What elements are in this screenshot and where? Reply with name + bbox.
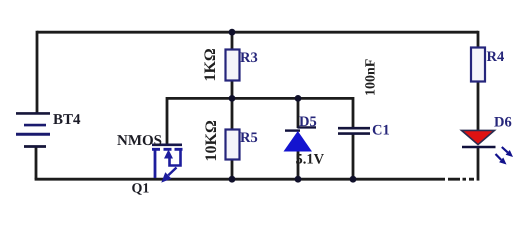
node R3/R5 middle <box>229 95 236 102</box>
wire R3 bottom lead <box>231 80 234 98</box>
cathode bar right segment <box>298 126 317 128</box>
wire NMOS gate lead <box>166 97 169 144</box>
wire bottom rail <box>35 178 445 181</box>
drain vertical <box>154 150 157 178</box>
svg-text:100nF: 100nF <box>364 59 379 96</box>
source vertical and bulk U <box>170 150 181 166</box>
wire middle rail <box>167 97 353 100</box>
source diagonal arrow <box>168 168 176 176</box>
svg-text:NMOS: NMOS <box>117 133 162 149</box>
resistor R3 <box>202 48 258 81</box>
node R3 top <box>229 29 236 36</box>
wire R5 top lead <box>231 98 234 130</box>
wire bottom rail dashed (faded) segment <box>448 178 474 181</box>
svg-text:R3: R3 <box>240 50 258 66</box>
svg-text:10KΩ: 10KΩ <box>203 120 220 161</box>
resistor R4 <box>471 48 504 82</box>
svg-text:R4: R4 <box>487 49 505 65</box>
transistor Q1 NMOS <box>117 133 183 197</box>
wire right vertical top (rail to R4) <box>477 31 480 48</box>
svg-text:BT4: BT4 <box>53 112 81 128</box>
wire R4 to D6 <box>477 81 480 131</box>
emission arrow 1 <box>502 147 508 152</box>
svg-text:D6: D6 <box>494 115 512 131</box>
wire C1 bottom lead <box>352 135 355 180</box>
node R5 bottom <box>229 176 236 183</box>
cathode bar left segment <box>285 129 300 131</box>
anode triangle <box>462 130 495 144</box>
svg-text:D5: D5 <box>299 114 317 130</box>
cathode bar <box>462 146 496 149</box>
node D5 top <box>295 95 302 102</box>
channel segments <box>152 148 183 151</box>
wire R3 top lead <box>231 32 234 50</box>
wire D5 bottom lead <box>297 151 300 179</box>
bulk arrowhead <box>164 150 173 159</box>
resistor R5 <box>203 120 258 161</box>
wire top rail <box>37 31 478 34</box>
svg-text:R5: R5 <box>240 130 258 146</box>
svg-text:5.1V: 5.1V <box>296 152 325 168</box>
svg-text:C1: C1 <box>372 123 390 139</box>
wire left vertical (battery top lead) <box>36 31 39 113</box>
zener diode D5 <box>284 114 325 168</box>
svg-text:Q1: Q1 <box>132 182 150 197</box>
wire R5 bottom lead <box>231 159 234 179</box>
wire battery bottom lead <box>35 147 38 179</box>
node D5 bottom <box>295 176 302 183</box>
capacitor C1 <box>338 59 390 139</box>
emission arrow 2 <box>496 154 502 160</box>
gate bar <box>152 144 182 147</box>
wire D6 to bottom rail <box>477 147 480 181</box>
wire C1 top lead <box>352 97 355 127</box>
anode triangle <box>284 131 313 152</box>
node C1 bottom <box>350 176 357 183</box>
battery BT4 <box>16 112 81 147</box>
svg-text:1KΩ: 1KΩ <box>202 48 219 81</box>
wire D5 top lead <box>297 98 300 128</box>
LED D6 <box>462 115 514 165</box>
